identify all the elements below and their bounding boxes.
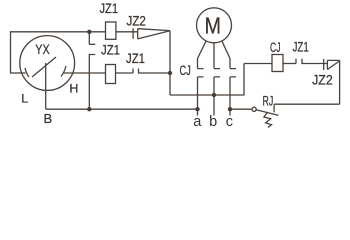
pressure gauge YX circle	[20, 36, 75, 91]
gauge needle	[32, 57, 56, 77]
relay coil JZ1 (lower)	[106, 65, 116, 84]
contactor coil CJ	[272, 55, 283, 72]
svg-text:JZ1: JZ1	[293, 40, 309, 55]
node a junction	[195, 107, 199, 111]
contact JZ1 (NO) ticks	[133, 69, 170, 74]
contact JZ2 right fixed bar	[323, 59, 325, 70]
svg-text:CJ: CJ	[270, 40, 281, 55]
node JZ1-contact junction	[168, 71, 172, 75]
thermal relay RJ blade	[256, 110, 278, 116]
motor lead left	[198, 41, 206, 68]
contact (bracket) upper tick	[89, 43, 95, 45]
thermal relay RJ heater zigzag	[264, 113, 272, 128]
wire CJ-coil branch	[244, 63, 272, 65]
relay coil JZ1 (top)	[106, 22, 116, 39]
thermal relay RJ terminal circle	[252, 107, 256, 111]
wire H-to-coil	[63, 72, 106, 74]
wire node B vertical	[45, 63, 47, 109]
wire left rail upper	[88, 32, 90, 45]
node c junction	[228, 107, 232, 111]
contact JZ2 fixed bar	[132, 28, 134, 39]
node b junction	[212, 93, 216, 97]
contact (bracket) lower tick + wire left rail lower	[89, 55, 95, 110]
motor lead right	[222, 41, 230, 68]
svg-text:M: M	[204, 13, 221, 39]
contact JZ1 right (NO) ticks	[296, 59, 327, 64]
svg-text:JZ2: JZ2	[127, 14, 146, 29]
svg-text:CJ: CJ	[180, 63, 191, 78]
node top-left junction	[87, 30, 91, 34]
wire L-to-top-rail	[11, 32, 106, 73]
wire JZ2-vertical down	[169, 31, 171, 95]
svg-text:c: c	[226, 114, 233, 130]
contactor CJ main contact 3	[230, 69, 236, 116]
wire RJ raised	[274, 103, 340, 105]
svg-text:JZ2: JZ2	[312, 73, 333, 88]
svg-text:L: L	[21, 92, 28, 106]
wire bottom rail	[46, 108, 198, 110]
svg-text:JZ1: JZ1	[101, 42, 120, 57]
svg-text:H: H	[69, 82, 78, 96]
wire capacitor-bottom line	[170, 64, 244, 96]
svg-text:YX: YX	[35, 42, 49, 57]
wire right vertical	[339, 60, 341, 104]
contact JZ2 flag	[138, 29, 170, 39]
svg-text:RJ: RJ	[263, 93, 274, 108]
contact JZ2 right flag	[327, 60, 339, 69]
contactor CJ main contact 2	[214, 69, 220, 95]
motor lead middle	[213, 43, 215, 69]
wire coil-to-contact	[116, 72, 134, 74]
wire terminal b	[213, 95, 215, 116]
svg-text:a: a	[193, 114, 202, 130]
wire c-to-RJ	[230, 108, 252, 110]
contact L lever	[25, 68, 29, 77]
svg-text:B: B	[44, 111, 53, 126]
svg-text:b: b	[209, 114, 217, 130]
node bottom-left junction	[87, 107, 91, 111]
wire coil-to-JZ2 contact	[116, 31, 138, 33]
motor M circle	[197, 8, 232, 43]
thermal relay RJ step	[273, 104, 275, 112]
wire coil-to-JZ1 contact	[283, 63, 296, 65]
contact H lever	[61, 66, 66, 77]
contactor CJ main contact 1	[198, 69, 204, 116]
svg-text:JZ1: JZ1	[100, 1, 119, 16]
svg-text:JZ1: JZ1	[126, 51, 145, 66]
